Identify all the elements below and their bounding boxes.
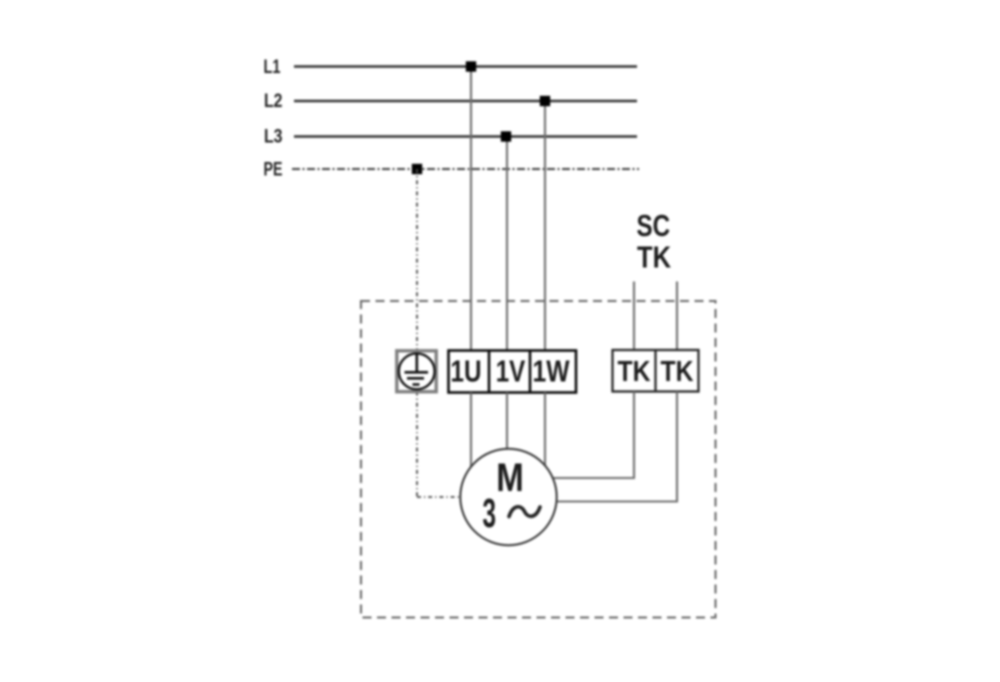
wire TK right to motor bbox=[557, 392, 678, 502]
motor M1 circle bbox=[460, 449, 556, 545]
wire PE dash-dot line bbox=[292, 168, 639, 170]
svg-text:PE: PE bbox=[264, 159, 283, 181]
junction dot on L3 bbox=[501, 131, 511, 141]
earth symbol bar 1 bbox=[405, 371, 429, 374]
svg-text:TK: TK bbox=[661, 356, 694, 388]
svg-text:1U: 1U bbox=[451, 354, 482, 389]
wire 1U to motor bbox=[470, 393, 472, 468]
wire 1V to motor bbox=[506, 393, 508, 450]
junction dot on L1 bbox=[466, 61, 476, 71]
earth symbol bar 3 bbox=[413, 383, 420, 386]
wire L3 line bbox=[294, 135, 637, 137]
motor tilde (AC symbol) bbox=[509, 507, 540, 517]
earth symbol bar 2 bbox=[407, 377, 424, 380]
svg-text:TK: TK bbox=[618, 356, 651, 388]
junction dot on PE bbox=[412, 164, 422, 174]
svg-text:3: 3 bbox=[483, 490, 497, 536]
svg-text:1V: 1V bbox=[496, 354, 526, 389]
TK divider bbox=[654, 350, 656, 392]
wire L3 to 1V vertical bbox=[506, 137, 508, 351]
wire TK left to motor bbox=[553, 392, 634, 479]
earth terminal square bbox=[397, 351, 436, 392]
svg-text:M: M bbox=[496, 456, 524, 500]
svg-text:TK: TK bbox=[637, 240, 672, 275]
wire PE dashed vertical upper bbox=[416, 169, 418, 351]
wire L1 line bbox=[294, 65, 637, 67]
svg-text:L1: L1 bbox=[264, 57, 281, 78]
terminal block 1U 1V 1W box bbox=[449, 351, 577, 393]
wire PE dashed vertical lower bbox=[416, 392, 418, 498]
wire SC/TK right vertical into TK terminal bbox=[676, 282, 678, 351]
svg-text:SC: SC bbox=[637, 208, 671, 243]
wire L2 line bbox=[294, 100, 637, 102]
wire L2 to 1W vertical bbox=[544, 101, 546, 351]
wire PE dashed horizontal to motor bbox=[417, 496, 460, 498]
terminal divider 1V/1W bbox=[529, 351, 532, 393]
earth terminal circle bbox=[399, 354, 435, 390]
enclosure dashed box bbox=[361, 301, 716, 618]
thermal contact block TK TK box bbox=[613, 350, 699, 392]
svg-text:L3: L3 bbox=[264, 127, 283, 148]
junction dot on L2 bbox=[540, 96, 550, 106]
wire L1 to 1U vertical bbox=[470, 67, 472, 351]
earth symbol stem bbox=[415, 355, 418, 372]
svg-text:1W: 1W bbox=[533, 354, 571, 389]
svg-text:L2: L2 bbox=[264, 91, 283, 112]
wire SC/TK left vertical into TK terminal bbox=[633, 282, 635, 351]
terminal divider 1U/1V bbox=[488, 351, 491, 393]
wire 1W to motor bbox=[544, 393, 546, 467]
